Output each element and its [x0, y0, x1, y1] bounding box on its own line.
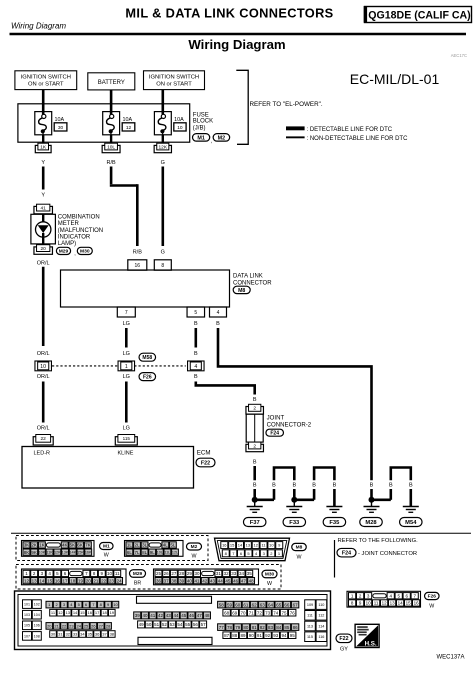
svg-text:R/B: R/B [107, 160, 117, 166]
svg-text:12L: 12L [172, 551, 178, 555]
svg-text:19: 19 [78, 578, 84, 583]
svg-text:87: 87 [224, 633, 230, 638]
svg-text:M1: M1 [103, 544, 110, 550]
svg-text:24: 24 [117, 578, 123, 583]
svg-text:35: 35 [88, 632, 93, 637]
svg-text:14K: 14K [69, 551, 76, 555]
svg-text:11K: 11K [46, 551, 53, 555]
svg-text:G: G [161, 160, 165, 166]
svg-text:109: 109 [307, 603, 313, 607]
svg-text:92: 92 [265, 633, 271, 638]
svg-text:B: B [370, 483, 374, 489]
svg-text:ON or START: ON or START [28, 82, 64, 88]
svg-text:B: B [409, 483, 413, 489]
svg-text:M28: M28 [365, 520, 377, 526]
svg-text:OR/L: OR/L [37, 425, 50, 431]
svg-text:IGNITION SWITCH: IGNITION SWITCH [149, 75, 199, 81]
svg-text:CONNECTOR: CONNECTOR [233, 280, 272, 286]
svg-text:,: , [211, 139, 213, 145]
svg-text:LG: LG [123, 321, 130, 327]
svg-text:12: 12 [58, 610, 63, 615]
svg-text:Wiring Diagram: Wiring Diagram [11, 21, 66, 30]
svg-text:1K: 1K [39, 543, 45, 548]
svg-text:ON or START: ON or START [156, 82, 192, 88]
svg-text:25: 25 [84, 623, 89, 628]
svg-text:8K: 8K [24, 550, 30, 555]
svg-text:10: 10 [366, 601, 372, 606]
svg-text:BLOCK: BLOCK [193, 119, 213, 125]
svg-text:11L: 11L [164, 551, 170, 555]
svg-text:29: 29 [187, 571, 193, 576]
svg-text:64: 64 [268, 602, 274, 607]
svg-text:M8: M8 [296, 545, 303, 551]
svg-text:32: 32 [224, 571, 230, 576]
svg-text:73: 73 [265, 610, 271, 615]
svg-text:86: 86 [293, 625, 299, 630]
svg-text:BR: BR [134, 581, 142, 587]
svg-text:M54: M54 [405, 520, 417, 526]
svg-text:KLINE: KLINE [118, 450, 134, 456]
svg-text:33: 33 [73, 632, 78, 637]
svg-text:5: 5 [194, 310, 197, 316]
svg-text:91: 91 [257, 633, 263, 638]
svg-text:F33: F33 [289, 520, 300, 526]
svg-text:10: 10 [177, 125, 183, 131]
svg-text:114: 114 [318, 624, 324, 628]
svg-text:70: 70 [240, 610, 246, 615]
svg-text:LED-R: LED-R [34, 450, 51, 456]
svg-text:85: 85 [284, 625, 290, 630]
svg-text:4K: 4K [62, 543, 68, 548]
svg-text:M29: M29 [59, 249, 69, 255]
svg-text:LG: LG [123, 425, 130, 431]
svg-text:15: 15 [406, 601, 412, 606]
svg-text:37: 37 [164, 578, 170, 583]
svg-text:COMBINATION: COMBINATION [58, 214, 100, 220]
svg-text:- JOINT CONNECTOR: - JOINT CONNECTOR [358, 551, 417, 557]
svg-text:2L: 2L [134, 543, 140, 548]
svg-text:BATTERY: BATTERY [98, 80, 125, 86]
svg-text:94: 94 [281, 633, 287, 638]
svg-text:: NON-DETECTABLE LINE FOR DTC: : NON-DETECTABLE LINE FOR DTC [307, 136, 409, 142]
svg-text:9K: 9K [31, 550, 37, 555]
svg-text:1K: 1K [40, 144, 47, 150]
svg-text:6K: 6K [77, 543, 83, 548]
svg-text:,: , [74, 251, 76, 257]
svg-text:W: W [429, 604, 434, 610]
svg-text:B: B [312, 483, 316, 489]
svg-text:57: 57 [201, 622, 207, 627]
svg-text:81: 81 [252, 625, 258, 630]
svg-text:74: 74 [273, 610, 279, 615]
svg-text:76: 76 [290, 610, 296, 615]
svg-text:72: 72 [257, 610, 263, 615]
svg-text:4L: 4L [163, 543, 169, 548]
svg-text:F37: F37 [250, 520, 260, 526]
svg-text:13: 13 [65, 610, 70, 615]
svg-text:103: 103 [24, 613, 30, 617]
svg-text:65: 65 [276, 602, 282, 607]
svg-text:M8: M8 [238, 288, 245, 294]
svg-text:31: 31 [216, 571, 222, 576]
svg-text:52: 52 [162, 622, 168, 627]
svg-text:45: 45 [181, 613, 187, 618]
svg-text:36: 36 [156, 578, 162, 583]
svg-text:17: 17 [63, 578, 69, 583]
svg-text:27: 27 [99, 623, 104, 628]
svg-text:ECM: ECM [197, 449, 211, 456]
svg-text:14: 14 [238, 543, 243, 548]
svg-text:14: 14 [73, 610, 78, 615]
svg-text:49: 49 [139, 622, 145, 627]
svg-text:15: 15 [47, 578, 53, 583]
svg-text:M30: M30 [80, 249, 90, 255]
svg-text:41: 41 [150, 613, 156, 618]
svg-text:24: 24 [76, 623, 81, 628]
svg-text:43: 43 [210, 578, 216, 583]
svg-text:OR/L: OR/L [37, 351, 50, 357]
svg-text:M2: M2 [191, 544, 198, 550]
svg-text:12K: 12K [159, 144, 168, 150]
svg-text:B: B [216, 321, 220, 327]
svg-text:7K: 7K [85, 543, 91, 548]
svg-text:REFER TO "EL-POWER".: REFER TO "EL-POWER". [250, 101, 323, 108]
svg-text:110: 110 [318, 603, 324, 607]
svg-text:F26: F26 [143, 374, 152, 380]
svg-text:77: 77 [219, 625, 225, 630]
svg-text:75: 75 [281, 610, 287, 615]
svg-text:18: 18 [102, 610, 107, 615]
svg-text:38: 38 [171, 578, 177, 583]
svg-text:13K: 13K [62, 551, 69, 555]
svg-text:61: 61 [243, 602, 249, 607]
svg-text:2: 2 [253, 443, 256, 449]
svg-text:F22: F22 [339, 636, 348, 642]
svg-text:35: 35 [247, 571, 253, 576]
svg-text:58: 58 [219, 602, 225, 607]
svg-text:LAMP): LAMP) [58, 241, 76, 247]
svg-text:18: 18 [70, 578, 76, 583]
svg-text:79: 79 [235, 625, 241, 630]
svg-text:42: 42 [158, 613, 164, 618]
svg-text:71: 71 [249, 610, 255, 615]
svg-text:27: 27 [171, 571, 177, 576]
svg-text:56: 56 [193, 622, 199, 627]
svg-text:55: 55 [185, 622, 191, 627]
svg-text:B: B [389, 483, 393, 489]
svg-text:GY: GY [340, 647, 348, 653]
svg-text:40: 40 [187, 578, 193, 583]
svg-text:108: 108 [34, 634, 40, 638]
svg-text:68: 68 [224, 610, 230, 615]
svg-text:8L: 8L [142, 550, 148, 555]
svg-text:48: 48 [204, 613, 210, 618]
svg-text:22: 22 [101, 578, 107, 583]
svg-text:38: 38 [110, 632, 115, 637]
svg-text:R/B: R/B [133, 249, 143, 255]
svg-text:67: 67 [293, 602, 299, 607]
svg-text:93: 93 [273, 633, 279, 638]
svg-text:15: 15 [80, 610, 85, 615]
svg-text:QG18DE (CALIF CA): QG18DE (CALIF CA) [368, 10, 470, 22]
svg-text:26: 26 [91, 623, 96, 628]
svg-text:40: 40 [142, 613, 148, 618]
svg-text:32: 32 [65, 632, 70, 637]
svg-text:M29: M29 [133, 571, 143, 577]
svg-text:4: 4 [194, 364, 197, 370]
svg-text:20: 20 [47, 623, 52, 628]
svg-text:3L: 3L [142, 543, 148, 548]
svg-text:B: B [253, 397, 257, 403]
svg-text:10L: 10L [157, 551, 163, 555]
svg-text:23: 23 [109, 578, 115, 583]
svg-text:10: 10 [269, 543, 274, 548]
svg-text:59: 59 [227, 602, 233, 607]
svg-text:LG: LG [123, 374, 130, 380]
svg-text:M58: M58 [142, 355, 152, 361]
svg-text:63: 63 [260, 602, 266, 607]
svg-text:REFER TO THE FOLLOWING.: REFER TO THE FOLLOWING. [338, 538, 419, 544]
svg-text:43: 43 [166, 613, 172, 618]
svg-text:113: 113 [307, 624, 313, 628]
svg-text:46: 46 [233, 578, 239, 583]
svg-text:B: B [194, 374, 198, 380]
svg-text:33: 33 [231, 571, 237, 576]
svg-text:16K: 16K [85, 551, 92, 555]
svg-text:105: 105 [24, 624, 30, 628]
svg-text:2K: 2K [31, 543, 37, 548]
svg-text:107: 107 [24, 634, 30, 638]
svg-text:EC-MIL/DL-01: EC-MIL/DL-01 [350, 71, 440, 87]
svg-text:46: 46 [189, 613, 195, 618]
svg-text:4: 4 [217, 310, 220, 316]
svg-text:41: 41 [195, 578, 201, 583]
svg-text:12: 12 [126, 125, 132, 131]
svg-text:FUSE: FUSE [193, 112, 209, 118]
svg-text:12: 12 [382, 601, 388, 606]
svg-text:10K: 10K [39, 551, 46, 555]
svg-text:115: 115 [307, 635, 313, 639]
svg-text:B: B [253, 483, 257, 489]
svg-text:15K: 15K [77, 551, 84, 555]
svg-text:Y: Y [41, 192, 45, 198]
svg-text:83: 83 [268, 625, 274, 630]
svg-text:84: 84 [276, 625, 282, 630]
svg-text:115: 115 [123, 436, 131, 441]
svg-text:3K: 3K [24, 543, 30, 548]
svg-text:28: 28 [179, 571, 185, 576]
svg-text:104: 104 [34, 613, 40, 617]
svg-text:25: 25 [156, 571, 162, 576]
svg-text:30: 30 [51, 632, 56, 637]
svg-text:16: 16 [414, 601, 420, 606]
svg-text:F24: F24 [270, 431, 279, 437]
svg-text:B: B [333, 483, 337, 489]
svg-text:44: 44 [173, 613, 179, 618]
svg-text:16: 16 [135, 263, 141, 269]
svg-text:13: 13 [390, 601, 396, 606]
svg-text:111: 111 [307, 614, 313, 618]
svg-text:1: 1 [125, 364, 128, 370]
svg-text:5L: 5L [170, 543, 176, 548]
svg-text:21: 21 [93, 578, 99, 583]
svg-text:89: 89 [240, 633, 246, 638]
svg-text:OR/L: OR/L [37, 260, 50, 266]
svg-text:13: 13 [246, 543, 251, 548]
svg-text:10L: 10L [107, 144, 115, 150]
svg-text:102: 102 [34, 602, 40, 606]
svg-text:112: 112 [318, 614, 324, 618]
svg-text:F22: F22 [201, 460, 210, 466]
svg-text:OR/L: OR/L [37, 374, 50, 380]
svg-text:12: 12 [253, 543, 258, 548]
svg-text:B: B [194, 351, 198, 357]
svg-text:INDICATOR: INDICATOR [58, 235, 91, 241]
svg-text:47: 47 [241, 578, 247, 583]
svg-text:10: 10 [107, 571, 113, 576]
svg-text:11: 11 [115, 571, 120, 576]
svg-text:41: 41 [41, 205, 47, 211]
svg-text:DATA LINK: DATA LINK [233, 274, 263, 280]
svg-text:116: 116 [318, 635, 324, 639]
svg-text:LG: LG [123, 351, 130, 357]
svg-text:6L: 6L [127, 550, 133, 555]
svg-text:16: 16 [222, 543, 227, 548]
svg-text:16: 16 [55, 578, 61, 583]
svg-text:78: 78 [227, 625, 233, 630]
svg-text:44: 44 [218, 578, 224, 583]
svg-text:7: 7 [125, 310, 128, 316]
svg-text:W: W [297, 555, 302, 561]
svg-text:W: W [192, 554, 197, 560]
svg-text:F24: F24 [342, 551, 351, 557]
svg-text:10A: 10A [55, 117, 65, 123]
svg-text:28: 28 [106, 623, 111, 628]
svg-text:AEC17C: AEC17C [451, 53, 467, 58]
svg-text:21: 21 [54, 623, 59, 628]
svg-text:31: 31 [58, 632, 63, 637]
svg-text:20: 20 [86, 578, 92, 583]
svg-text:B: B [292, 483, 296, 489]
svg-text:WEC137A: WEC137A [436, 655, 464, 661]
svg-text:(MALFUNCTION: (MALFUNCTION [58, 228, 103, 234]
svg-text:42: 42 [202, 578, 208, 583]
svg-text:(J/B): (J/B) [193, 126, 206, 132]
svg-text:B: B [194, 321, 198, 327]
svg-text:39: 39 [135, 613, 141, 618]
svg-text:34: 34 [80, 632, 85, 637]
svg-text:22: 22 [62, 623, 67, 628]
svg-text:13: 13 [32, 578, 38, 583]
svg-text:Y: Y [41, 160, 45, 166]
svg-text:80: 80 [243, 625, 249, 630]
svg-text:Wiring Diagram: Wiring Diagram [188, 37, 285, 52]
svg-text:53: 53 [170, 622, 176, 627]
svg-text:H.S.: H.S. [365, 640, 377, 647]
svg-text:1L: 1L [127, 543, 133, 548]
svg-text:2: 2 [253, 406, 256, 412]
svg-text:17: 17 [95, 610, 100, 615]
svg-text:69: 69 [232, 610, 238, 615]
svg-text:CONNECTOR-2: CONNECTOR-2 [267, 421, 312, 428]
svg-text:B: B [272, 483, 276, 489]
svg-text:M1: M1 [197, 135, 205, 141]
svg-text:88: 88 [232, 633, 238, 638]
svg-text:F35: F35 [329, 520, 340, 526]
svg-text:90: 90 [249, 633, 255, 638]
svg-text:95: 95 [290, 633, 296, 638]
svg-text:30: 30 [195, 571, 201, 576]
svg-text:W: W [267, 581, 272, 587]
svg-text:9L: 9L [150, 550, 156, 555]
svg-text:M30: M30 [265, 572, 275, 578]
svg-text:W: W [104, 553, 109, 559]
svg-text:66: 66 [284, 602, 290, 607]
svg-text:82: 82 [260, 625, 266, 630]
svg-text:50: 50 [146, 622, 152, 627]
svg-text:MIL & DATA LINK CONNECTORS: MIL & DATA LINK CONNECTORS [125, 5, 333, 20]
svg-text:14: 14 [398, 601, 404, 606]
svg-text:45: 45 [225, 578, 231, 583]
svg-text:8: 8 [161, 263, 164, 269]
svg-text:106: 106 [34, 624, 40, 628]
svg-text:62: 62 [252, 602, 258, 607]
svg-text:F26: F26 [428, 594, 437, 600]
svg-text:11: 11 [374, 601, 379, 606]
svg-text:34: 34 [239, 571, 245, 576]
svg-text:IGNITION SWITCH: IGNITION SWITCH [21, 75, 71, 81]
svg-text:16: 16 [88, 610, 93, 615]
svg-text:23: 23 [69, 623, 74, 628]
svg-text:60: 60 [235, 602, 241, 607]
svg-text:30: 30 [58, 125, 64, 131]
svg-text:10A: 10A [174, 117, 184, 123]
svg-text:19: 19 [110, 610, 115, 615]
svg-text:48: 48 [249, 578, 255, 583]
svg-text:26: 26 [164, 571, 170, 576]
svg-text:39: 39 [179, 578, 185, 583]
svg-text:METER: METER [58, 221, 80, 227]
svg-text:G: G [161, 249, 165, 255]
svg-text:5K: 5K [70, 543, 76, 548]
svg-text:15: 15 [230, 543, 235, 548]
svg-text:51: 51 [154, 622, 160, 627]
svg-text:14: 14 [39, 578, 45, 583]
svg-text:47: 47 [197, 613, 203, 618]
svg-text:22: 22 [41, 436, 47, 442]
svg-text:36: 36 [95, 632, 100, 637]
svg-text:B: B [253, 459, 257, 465]
svg-text:10A: 10A [123, 117, 133, 123]
svg-text:101: 101 [24, 602, 30, 606]
svg-text:54: 54 [177, 622, 183, 627]
svg-text:M2: M2 [218, 135, 226, 141]
svg-text:12K: 12K [54, 551, 61, 555]
svg-text:12: 12 [24, 578, 30, 583]
svg-text:37: 37 [102, 632, 107, 637]
svg-text:: DETECTABLE LINE FOR DTC: : DETECTABLE LINE FOR DTC [307, 127, 393, 133]
svg-text:20: 20 [41, 246, 47, 252]
svg-text:10: 10 [40, 364, 46, 370]
svg-text:10: 10 [113, 602, 118, 607]
svg-text:7L: 7L [134, 550, 140, 555]
